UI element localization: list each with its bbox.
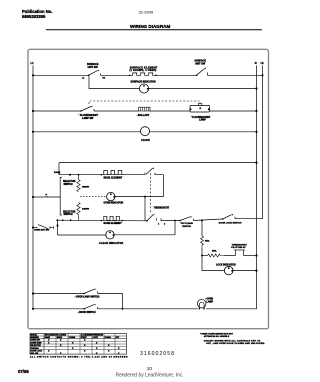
- header rule: [46, 29, 262, 31]
- svg-text:Rendered by LeadVenture, Inc.: Rendered by LeadVenture, Inc.: [116, 373, 184, 379]
- wire: L1 to selector (P terminal): [32, 194, 60, 198]
- svg-text:1300W: 1300W: [82, 209, 90, 211]
- svg-text:APPEAR IN ALL MODELS: APPEAR IN ALL MODELS: [204, 335, 230, 338]
- svg-text:10: 10: [147, 366, 153, 371]
- svg-text:X: X: [60, 345, 62, 347]
- wire: relay contact to corner: [155, 175, 163, 197]
- relay: thermostat pilot relay contacts: [224, 243, 258, 256]
- wire: oven indicator to relay corner: [115, 196, 163, 198]
- svg-text:DOOR LOCK SWITCH: DOOR LOCK SWITCH: [219, 223, 242, 225]
- svg-text:START: START: [81, 336, 88, 339]
- svg-text:LAMP: LAMP: [199, 119, 206, 122]
- wire: top line corner down: [58, 163, 60, 175]
- wire: switch to element: [101, 74, 130, 76]
- wire: mechanical dashed link switch to lamp: [89, 101, 200, 104]
- svg-text:SELECTOR: SELECTOR: [31, 345, 42, 347]
- outer border frame: [28, 49, 269, 328]
- svg-text:PILOT RELAY: PILOT RELAY: [231, 246, 246, 249]
- switch: door switch: [79, 304, 98, 315]
- wire: switch to ballast: [94, 110, 139, 112]
- svg-text:CLEAN: CLEAN: [105, 336, 112, 339]
- svg-text:WIRING DIAGRAM: WIRING DIAGRAM: [130, 24, 170, 29]
- svg-text:BAKE ELEMENT: BAKE ELEMENT: [104, 222, 123, 225]
- svg-text:LAMP SW: LAMP SW: [82, 117, 94, 120]
- svg-text:BAKE: BAKE: [45, 336, 51, 339]
- inductor: ballast: [138, 107, 150, 117]
- svg-text:CLEAN: CLEAN: [69, 336, 76, 339]
- selector switch bracket: [60, 177, 76, 216]
- switch: oven lamp switch: [76, 288, 100, 298]
- wire: lamp switch to corner: [98, 294, 123, 309]
- svg-text:LAMP: LAMP: [207, 300, 214, 303]
- svg-text:2: 2: [164, 224, 166, 226]
- svg-text:CIRCUIT SHOWN WITH ALL CONTROL: CIRCUIT SHOWN WITH ALL CONTROLS OFF, TO: [204, 340, 261, 343]
- svg-text:1: 1: [158, 224, 160, 226]
- wire: fluorescent row (L1 to switch): [33, 110, 81, 112]
- svg-text:OVEN SET: OVEN SET: [31, 340, 41, 342]
- svg-text:LOCK INDICATOR: LOCK INDICATOR: [216, 263, 236, 266]
- svg-text:L1: L1: [31, 61, 35, 65]
- svg-text:SWITCH: SWITCH: [64, 214, 73, 216]
- bullet marks for starred components: [75, 114, 207, 313]
- wire: lock indicator to N bus: [233, 270, 257, 272]
- thermostat: [146, 207, 170, 226]
- svg-text:X: X: [48, 351, 50, 353]
- resistor: bake element: [104, 216, 123, 225]
- wire: thermostat out to clean switch: [161, 220, 180, 222]
- lamp: oven lamp: [197, 299, 213, 310]
- svg-text:BALLAST: BALLAST: [138, 114, 150, 117]
- lamp: fluorescent lamp: [190, 104, 211, 122]
- svg-text:OVEN: OVEN: [207, 299, 214, 301]
- svg-text:H1: H1: [103, 78, 106, 80]
- svg-text:OFF , AND OVEN DOOR CLOSED AND: OFF , AND OVEN DOOR CLOSED AND UNLOCKED.: [206, 342, 265, 345]
- svg-text:THERMOSTAT: THERMOSTAT: [232, 243, 248, 246]
- svg-text:X: X: [108, 345, 110, 347]
- resistor: selector coil upper: [77, 175, 90, 192]
- wire: oven section top line: [59, 162, 257, 164]
- wire: ballast to lamp: [150, 110, 257, 112]
- lamp: oven indicator: [104, 192, 124, 204]
- wire: clean indicator up to door lock row: [114, 221, 175, 235]
- svg-text:X: X: [96, 343, 98, 345]
- lamp: lock indicator: [216, 263, 236, 275]
- svg-text:N: N: [255, 61, 257, 65]
- svg-text:CLEAN INDICATOR: CLEAN INDICATOR: [99, 242, 124, 245]
- svg-text:UNIT SW: UNIT SW: [88, 66, 99, 69]
- wire: element to switch S2: [156, 74, 197, 76]
- svg-text:DOOR SWITCH: DOOR SWITCH: [79, 312, 96, 314]
- svg-text:LOCK: LOCK: [93, 337, 99, 339]
- svg-text:X: X: [48, 343, 50, 345]
- resistor: broil element: [101, 171, 123, 180]
- svg-text:NO CLEAN: NO CLEAN: [181, 222, 193, 225]
- resistor: MDL vertical: [201, 220, 211, 255]
- wire: MDL junction down to lock indicator: [202, 256, 224, 271]
- svg-text:SURFACE INDICATOR: SURFACE INDICATOR: [131, 81, 156, 84]
- wire: dashed mechanical link to thermostat: [149, 173, 151, 214]
- switch S2 surface unit sw (right): [195, 60, 208, 77]
- svg-text:X: X: [118, 348, 120, 350]
- wire: N bus: [256, 66, 258, 309]
- wire: lamp to N bus corner: [206, 308, 257, 310]
- svg-text:MDL: MDL: [212, 250, 217, 252]
- svg-text:OVEN TEMP: OVEN TEMP: [31, 343, 43, 345]
- wire: clock to N bus: [149, 131, 256, 133]
- svg-text:X: X: [84, 340, 86, 342]
- svg-text:OFF: OFF: [116, 337, 120, 339]
- wire: door lock switch to L2 corner: [235, 218, 263, 219]
- svg-text:OVEN SET SW: OVEN SET SW: [34, 230, 50, 232]
- wire: indicator to N bus: [149, 88, 257, 90]
- wire: drop from S1 to indicator row: [89, 75, 139, 88]
- wire: door switch row: [33, 308, 84, 310]
- svg-text:SWITCH: SWITCH: [64, 184, 73, 186]
- resistor: selector coil lower: [77, 203, 90, 221]
- motor: clock: [141, 127, 151, 143]
- svg-text:ALL SWITCH CONTACTS SHOWN: 0 T: ALL SWITCH CONTACTS SHOWN: 0 THD-T-125 A…: [30, 355, 128, 358]
- svg-text:L1: L1: [82, 78, 85, 80]
- header: publication number block: [22, 9, 52, 19]
- switch: door lock switch: [219, 214, 242, 225]
- svg-text:CLOCK: CLOCK: [141, 139, 150, 142]
- svg-text:BROIL ELEMENT: BROIL ELEMENT: [104, 177, 123, 179]
- wire: broil wire: [59, 174, 145, 176]
- svg-text:L2: L2: [261, 61, 265, 65]
- svg-text:X: X: [96, 348, 98, 350]
- note block: [200, 332, 265, 345]
- svg-text:31-2649: 31-2649: [139, 10, 154, 15]
- svg-text:SWITCH: SWITCH: [182, 226, 191, 228]
- wire: L1 bus: [32, 66, 34, 310]
- switch: oven relay contacts: [145, 167, 155, 175]
- svg-text:UNIT SW: UNIT SW: [195, 62, 206, 65]
- svg-text:X: X: [84, 351, 86, 353]
- svg-text:THERMOSTAT: THERMOSTAT: [154, 207, 170, 210]
- wire: surface unit row (L1 to switch): [33, 74, 89, 76]
- switch S3 fluorescent lamp sw: [80, 106, 98, 120]
- resistor: surface element: [129, 66, 158, 76]
- wire: bake element row: [56, 219, 147, 222]
- svg-text:SELECTOR: SELECTOR: [63, 181, 76, 183]
- lamp: clean indicator: [99, 231, 124, 245]
- wire: vertical to thermostat: [144, 197, 146, 221]
- switch: oven set switch: [32, 219, 58, 235]
- switch: oven clean switch: [179, 216, 193, 228]
- wire: to pilot relay: [202, 255, 208, 257]
- wire: L2 bus: [262, 66, 264, 218]
- wire: oven lamp switch row: [33, 293, 84, 295]
- svg-text:OVEN LAMP SWITCH: OVEN LAMP SWITCH: [76, 296, 100, 299]
- svg-text:2585W: 2585W: [82, 186, 90, 188]
- wire: door row to lamp: [98, 308, 198, 310]
- resistor: MDL horizontal: [208, 250, 224, 257]
- wire: clean indicator row: [58, 234, 106, 236]
- svg-text:X: X: [48, 340, 50, 342]
- svg-text:(1 SHOWN, 4 USED): (1 SHOWN, 4 USED): [130, 69, 157, 72]
- wire: clock row: [33, 131, 141, 133]
- wire: switch S2 to L2 bus: [208, 74, 263, 76]
- svg-text:OVEN INDICATOR: OVEN INDICATOR: [104, 202, 124, 205]
- svg-text:07/95: 07/95: [18, 369, 29, 374]
- svg-text:5995293395: 5995293395: [22, 14, 46, 19]
- svg-text:MDL: MDL: [205, 241, 210, 243]
- switch S1 surface unit sw: [82, 63, 106, 80]
- wire: clean switch to door lock switch: [194, 219, 223, 221]
- svg-text:316002058: 316002058: [140, 351, 175, 357]
- lamp: surface indicator: [131, 81, 156, 93]
- svg-text:THERMO: THERMO: [31, 348, 40, 350]
- svg-text:MDL SW: MDL SW: [31, 353, 39, 355]
- table: model chart: [30, 334, 127, 355]
- svg-text:X: X: [84, 345, 86, 347]
- svg-text:X: X: [72, 343, 74, 345]
- wire: dashed wiper to oven indicator: [80, 196, 106, 198]
- svg-text:SELECTOR: SELECTOR: [63, 211, 76, 213]
- svg-text:X: X: [108, 351, 110, 353]
- svg-text:X: X: [72, 348, 74, 350]
- svg-text:X: X: [60, 340, 62, 342]
